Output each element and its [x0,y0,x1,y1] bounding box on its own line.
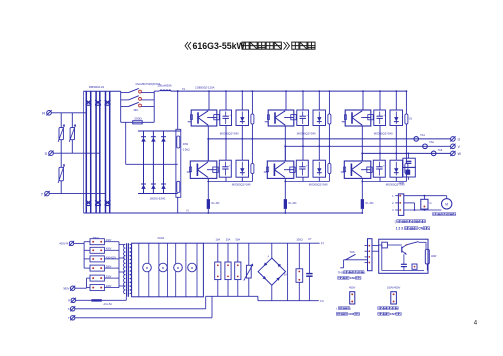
control bus wire FT [203,242,324,246]
resistor assembly box [176,129,181,197]
D3 top wire [318,90,320,110]
IGBT module Q1 (upper phase U) [190,110,219,126]
rectifier stack top rail [84,90,121,92]
return riser A [205,296,207,309]
C3 bottom wire [302,126,304,147]
lower tie wire (column 1) [207,181,252,183]
Q6 emitter pin wire [361,178,363,199]
svg-text:TA3: TA3 [438,148,443,152]
fan motor M2 [159,263,168,272]
gate resistor R2 (lower) [251,164,254,174]
svg-text:200Ω: 200Ω [134,116,142,120]
Q4 collector pin wire [284,145,286,161]
wire S phase [53,152,99,154]
Q5 collector pin wire [362,90,364,110]
svg-text:400/415V: 400/415V [106,256,117,259]
IGBT module Q3 (upper phase V) [267,110,296,126]
R3 top wire [329,90,331,114]
lower tie wire (column 2) [284,181,329,183]
control fuse FU2 [225,243,231,296]
snubber capacitor C2 (lower) [219,160,231,177]
bridge side wire [287,243,289,301]
D3 bottom wire [318,126,320,147]
svg-text:400V R: 400V R [59,242,68,246]
fan unit box FAN1 [132,236,204,297]
N bus wire [84,212,364,214]
wire contactor to rectifier mid [125,122,127,164]
D1 top wire [241,90,243,110]
tap ladder upper [84,242,90,268]
transformer T1 core [127,243,129,297]
psu return bus upper [206,295,258,297]
svg-text:(: ( [336,306,337,310]
rectifier stack left edge [83,91,85,213]
svg-text:RL-150: RL-150 [212,202,221,205]
R1 bottom wire [251,124,253,139]
svg-text:220K: 220K [399,182,405,185]
D1 bottom wire [241,126,243,139]
control box capacitor C11 [401,264,407,270]
choke L1 [154,90,171,92]
fan note caption line1 [395,220,426,224]
tap fuse F6 200V [90,285,119,291]
C4 bottom wire [302,177,304,181]
tap fuse F3 400/415V [90,256,119,262]
shunt resistor RS3 [361,199,364,209]
rectifier bridge top rail [138,130,181,132]
wire ACL input [68,298,91,303]
C6 bottom wire [379,177,381,181]
control fuse FU1 [215,243,221,296]
wire ACL to transformer [102,297,127,301]
Q4 emitter pin wire [284,178,286,199]
svg-text:380V: 380V [63,287,69,291]
D4 bottom wire [318,177,320,181]
clamp diode D2 (lower) [236,160,249,177]
svg-text:RM50DZ-24: RM50DZ-24 [89,85,105,89]
C5 top wire [379,90,381,110]
wire CN2 to control box B [372,250,379,252]
terminal S2 [68,306,75,311]
Q5 gate stub [342,121,346,123]
line filter ACL [91,299,112,306]
Q3 emitter pin wire [284,126,286,161]
terminal V [450,144,460,149]
stack diodes top row [86,100,111,105]
C5 bottom wire [379,126,381,154]
D6 bottom wire [395,177,397,181]
wire R phase [51,112,86,114]
D5 top wire [395,90,397,110]
current transformer TA2 [423,140,435,149]
svg-text:200V: 200V [106,285,112,288]
svg-text:MG300Q2YS40: MG300Q2YS40 [232,183,251,187]
fan connector CN1 [392,194,404,216]
THS caption line2 [338,276,361,280]
wire U output line [208,138,450,140]
svg-text:400V: 400V [106,248,112,251]
return riser B [211,296,213,318]
Q1 collector pin wire [208,90,210,110]
svg-text:S: S [45,151,48,156]
snubber capacitor box C10 [403,158,415,167]
svg-text:100Ω: 100Ω [296,237,302,241]
wire V output line [285,145,450,147]
svg-text:): ) [364,270,365,274]
svg-text:MG300Q2YS40: MG300Q2YS40 [297,131,316,135]
fan capacitor caption line1 [378,307,398,310]
control box resistor R20 [379,242,402,248]
terminal S [45,151,54,156]
svg-text:R: R [68,299,70,303]
stack diodes bottom row [86,200,111,205]
lower tie wire (column 3) [361,181,406,183]
D6 top wire [395,153,397,161]
svg-text:R: R [42,111,45,116]
svg-text:CN4: CN4 [350,276,356,280]
R2 top wire [252,138,254,164]
clamp diode D4 (lower) [313,160,326,177]
wire P bus to resistor assembly [177,91,179,129]
R1 top wire [252,90,254,114]
control connector CN2 [365,239,373,271]
svg-text:RL-150: RL-150 [366,202,375,205]
rectifier mid tie wire [126,163,178,165]
R6 top wire [406,153,408,164]
wire T2 return [75,317,212,319]
svg-text:50A: 50A [235,237,240,241]
fan note caption line2 [396,227,430,231]
terminal T [41,191,50,196]
contactor contact MC-2 [121,96,155,101]
clamp diode D6 (lower) [390,160,403,177]
gate resistor R3 (upper) [328,114,331,124]
terminal T2 [68,315,75,320]
wire fan motor drop [446,196,448,199]
svg-text:220V: 220V [106,276,112,279]
wire CN2 to control box A [372,245,379,247]
gate resistor R6 (lower) [405,164,408,174]
wire resistor assembly to N bus [177,197,179,213]
precharge resistor body [133,121,143,124]
external resistor R22 [425,249,437,270]
fan capacitor caption line2 [378,312,401,316]
varistor RV2 [69,113,76,153]
IGBT module Q4 (lower phase V) [267,161,296,178]
charge resistor caption line1 [336,306,351,310]
svg-text:40W: 40W [183,142,189,146]
wire 400V feed [74,242,84,244]
psu return bus step [257,296,259,300]
D2 top wire [241,138,243,160]
R2 bottom wire [251,174,253,182]
fan motor M3 [174,263,183,272]
gate resistor R5 (upper) [405,114,408,124]
contactor bottom rail [121,121,155,123]
fan capacitor spare 160V/450V [387,286,401,304]
bridge rectifier BR1 [258,255,287,286]
fan control box [379,239,428,273]
C1 bottom wire [225,126,227,139]
terminal 380V [63,286,75,291]
rectifier bridge bottom rail [138,193,178,195]
wire W output line [362,152,450,154]
svg-text:MG300Q2YS40: MG300Q2YS40 [374,131,393,135]
control box bottom wire [382,245,424,271]
svg-text:0.5kΩ: 0.5kΩ [183,148,190,152]
wire CN1 pin2 jumper [404,203,416,211]
fan motor M1 [143,263,152,272]
tap fuse F4 380V [90,265,119,271]
fan motor FM [442,199,452,209]
current transformer TA3 [431,148,442,156]
R6 bottom wire [405,174,407,182]
tap fuse F5 220V [90,275,119,281]
rectifier diodes lower [141,184,166,189]
snubber bottom stub [407,177,409,180]
thermal switch THS [340,250,367,268]
IGBT module Q6 (lower phase W) [344,161,373,178]
svg-text:CN: CN [418,227,423,231]
R4 bottom wire [328,174,330,182]
tap fuse F1 440V [90,239,119,245]
svg-text:1DB300Z-120A: 1DB300Z-120A [195,86,214,90]
varistor RV1 [58,113,65,153]
svg-text:160V/450V: 160V/450V [387,286,401,290]
control box relay contact [405,242,426,250]
svg-text:S: S [68,307,70,311]
capacitor C7 body [306,243,312,301]
varistor RV3 [58,153,65,193]
P bus wire [171,90,406,92]
fuse labels 10A 20A 50A [215,237,240,241]
C3 top wire [302,90,304,110]
title 616G3-55kW inverter main-circuit heading [185,41,315,51]
C2 bottom wire [225,177,227,181]
rectifier bridge legs [144,131,164,194]
contactor right rail [153,91,155,122]
C4 top wire [302,145,304,160]
charge resistor spare 450V [349,286,355,304]
Q1 gate stub [188,121,192,123]
snubber capacitor C6 (lower) [373,160,385,177]
C2 top wire [225,138,227,160]
svg-text:THS(: THS( [338,270,345,274]
svg-text:): ) [350,306,351,310]
svg-text:MG300Q2YS40: MG300Q2YS40 [220,131,239,135]
svg-text:TA2: TA2 [429,140,434,144]
fan motor M4 [188,263,197,272]
resistor RA2 [177,181,180,192]
contactor contact MC-1 [121,88,155,93]
current transformer TA1 [414,133,425,141]
wire CN1 pin3 to fan motor [404,209,442,211]
svg-text:THS: THS [349,250,355,254]
svg-text:CN7: CN7 [390,312,396,316]
transformer secondary winding [130,244,132,293]
R5 bottom wire [405,124,407,153]
snubber capacitor C3 (upper) [297,110,309,126]
D4 top wire [318,145,320,160]
RS2 wire to N bus [284,209,286,214]
Q2 collector pin wire [207,138,209,161]
bridge DC bottom wire [271,285,273,301]
adjustable resistor RV [244,243,253,296]
wire CN1 pin1 to fan motor [404,195,447,197]
svg-text:100uH/50A: 100uH/50A [157,83,172,87]
R3 bottom wire [328,124,330,146]
Q4 gate stub [264,171,268,173]
shunt resistor RS1 [207,199,210,209]
C1 top wire [225,90,227,110]
svg-text:MC: MC [134,108,140,112]
C6 top wire [379,153,381,161]
terminal W [450,151,461,156]
svg-text:616G3-55kW: 616G3-55kW [193,41,246,51]
svg-text:M: M [445,202,448,206]
svg-text:1 2 3: 1 2 3 [396,227,403,231]
svg-text:TA1: TA1 [420,133,425,137]
shunt resistor RS2 [284,199,287,209]
resistor RA1 [177,136,180,148]
gate resistor R4 (lower) [328,164,331,174]
terminal R [42,110,51,115]
fan thermal resistor RT [421,195,432,211]
svg-text:FT: FT [321,242,325,246]
resistor assembly labels [183,142,190,152]
Q6 gate stub [341,171,345,173]
svg-text:N: N [187,208,189,212]
svg-text:TB01: TB01 [93,236,100,240]
svg-text:450V: 450V [349,286,355,290]
clamp diode D3 (upper) [313,110,326,126]
svg-text:CN6: CN6 [348,312,354,316]
RS3 wire to N bus [361,209,363,214]
IGBT module Q2 (lower phase U) [190,161,219,178]
snubber resistor box R10 [403,167,415,177]
R4 top wire [329,145,331,163]
clamp diode D5 (upper) [390,110,403,126]
contactor contact MC-3 [121,102,155,107]
gate resistor R1 (upper) [251,114,254,124]
snubber capacitor C5 (upper) [374,110,386,126]
P bus junction [177,90,179,92]
wire T phase [49,193,105,195]
control box resistor R21 [412,264,417,269]
IGBT module Q5 (upper phase W) [344,110,373,126]
terminal U [450,136,460,141]
D5 bottom wire [395,126,397,154]
RS1 wire to N bus [207,209,209,214]
svg-text:-: - [269,281,270,285]
Q6 collector pin wire [361,152,363,161]
svg-text:10A: 10A [215,237,220,241]
THS caption line1 [338,270,366,274]
svg-text:40W: 40W [431,254,437,258]
Q2 emitter pin wire [207,178,209,199]
svg-text:ACL-5A: ACL-5A [104,303,113,306]
svg-text:FU: FU [320,299,324,303]
terminal 400V-R [59,241,74,246]
control box transistor Q7 [402,245,407,264]
transformer primary winding [123,244,125,293]
svg-text:+: + [267,255,269,259]
svg-text:RL-150: RL-150 [289,202,298,205]
svg-text:160DG-ES41: 160DG-ES41 [150,197,166,201]
svg-text:380V: 380V [106,266,112,269]
Q2 gate stub [187,171,191,173]
control fuse FU3 [235,243,241,296]
svg-text:C7: C7 [308,237,312,241]
R5 top wire [406,90,408,114]
svg-text:20A: 20A [226,237,231,241]
wire S2 return [75,308,206,310]
svg-text:440V: 440V [106,239,112,242]
clamp diode D1 (upper) [236,110,249,126]
D2 bottom wire [241,177,243,181]
rectifier stack bus bars [86,91,109,213]
tap collector wire [119,242,125,288]
Q3 collector pin wire [285,90,287,110]
wire W line to snubber network [408,153,410,159]
fan motor caption [433,213,456,216]
Q5 emitter pin wire [361,126,363,161]
rectifier diodes upper [141,137,166,142]
tap fuse F2 400V [90,247,119,253]
snubber capacitor C1 (upper) [220,110,232,126]
svg-text:MG300Q2YS40: MG300Q2YS40 [309,183,328,187]
bridge AC top wire [271,243,273,258]
charge resistor caption line2 [336,312,359,316]
resistor 100ohm body [296,243,303,301]
contactor left rail [120,91,122,122]
tap ladder lower [75,278,90,288]
svg-text:FAN1: FAN1 [158,236,165,240]
Q1 emitter pin wire [207,126,209,161]
Q3 gate stub [265,121,269,123]
snubber capacitor C4 (lower) [296,160,308,177]
psu return bus lower [258,299,324,303]
svg-text:2A: 2A [284,273,287,276]
